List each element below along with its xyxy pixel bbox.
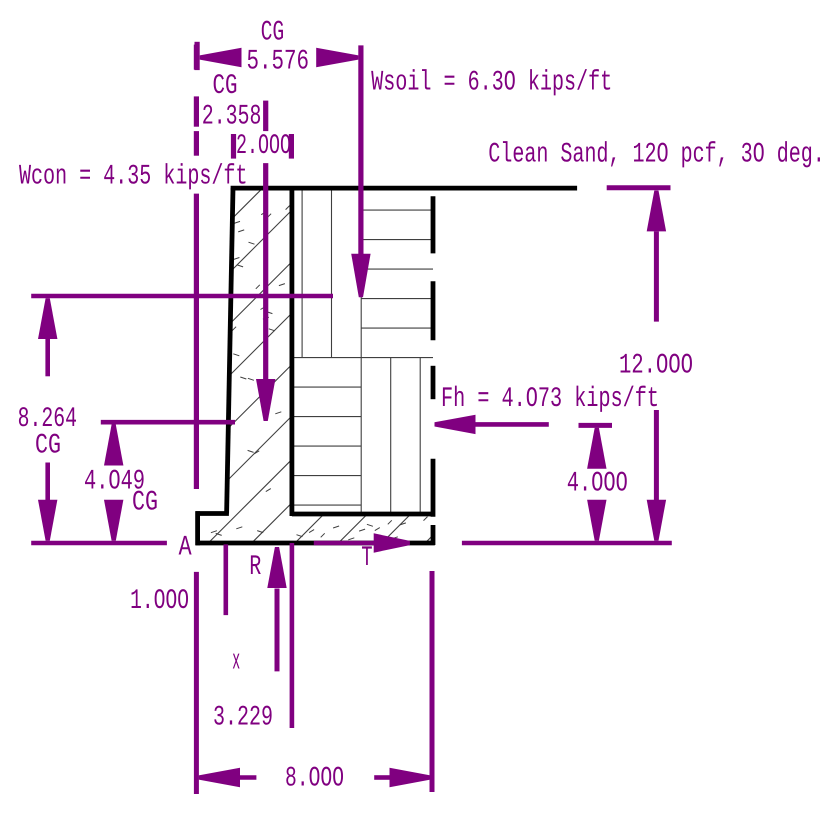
- Wsoil force arrow: [358, 45, 363, 255]
- 4.000 top tick: [579, 423, 613, 428]
- dimension 2.000 (stem top width): [231, 134, 236, 159]
- stem left (battered) face: [227, 188, 233, 513]
- R resultant arrow: [275, 589, 280, 672]
- label R: [251, 555, 261, 574]
- stem right face: [289, 188, 294, 516]
- soil CG horizontal reference line: [31, 294, 333, 299]
- toe step horizontal: [196, 511, 229, 516]
- footing top (heel) line: [292, 512, 431, 517]
- label 3.229: [214, 706, 271, 725]
- short reference line below toe: [224, 544, 229, 615]
- extension line below A: [194, 572, 199, 794]
- label T: [362, 546, 372, 565]
- soil right dashed boundary: [431, 196, 436, 253]
- dimension 8.000 (footing width): [199, 768, 240, 787]
- dimension 4.049 down arrow: [104, 500, 123, 541]
- dimension 5.576 (CG offset): [195, 42, 200, 70]
- dashed extension line at point A x: [194, 45, 199, 70]
- label Fh = 4.073 kips/ft: [443, 386, 657, 412]
- footing left edge: [195, 511, 200, 545]
- dimension 8.264 down arrow: [45, 463, 50, 502]
- extension line below right edge: [430, 571, 435, 792]
- dimension 4.049 up arrow: [104, 425, 123, 466]
- node CG label (top, for 5.576): [262, 21, 283, 40]
- label Wcon = 4.35 kips/ft: [19, 163, 245, 189]
- label 4.049 / CG: [85, 470, 144, 489]
- ground baseline left: [31, 541, 167, 546]
- dimension 2.358: [203, 105, 260, 124]
- label x: [233, 654, 240, 669]
- dimension 4.000 up arrow: [587, 428, 606, 469]
- footing bottom line: [196, 541, 435, 546]
- node CG label (for 2.358): [214, 74, 237, 93]
- dimension 8.264 up arrow: [38, 298, 57, 339]
- node A label: [179, 536, 192, 555]
- dimension 12.000 (wall height): [647, 191, 666, 232]
- label Clean Sand, 120 pcf, 30 deg.: [489, 141, 820, 167]
- T friction force arrow: [314, 541, 375, 546]
- dimension 4.000 down arrow: [587, 500, 606, 541]
- label 4.000: [568, 472, 627, 491]
- wall top line: [231, 186, 577, 191]
- Fh force arrow: [435, 415, 476, 434]
- Wcon CG force arrow: [263, 163, 268, 380]
- ground baseline right: [462, 541, 672, 546]
- label 8.264 / CG: [19, 407, 76, 426]
- concrete CG horizontal reference line: [101, 420, 235, 425]
- label 1.000: [132, 589, 188, 608]
- 12.000 top tick: [607, 185, 671, 190]
- reference line at stem face below footing: [290, 543, 295, 728]
- soil hatch grid (1-ft parquet pattern): [294, 191, 433, 514]
- label Wsoil = 6.30 kips/ft: [371, 69, 610, 95]
